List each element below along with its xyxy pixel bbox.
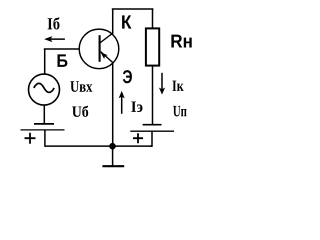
- wire: collector vertical from transistor to top rail: [112, 9, 114, 34]
- label Э (emitter node): [123, 70, 132, 83]
- label Iк: [172, 81, 183, 91]
- arrow Iэ shaft: [121, 97, 123, 114]
- arrow Iэ head: [119, 91, 125, 98]
- label Iб: [48, 17, 60, 29]
- AC source G1 sine wave: [34, 83, 54, 92]
- wire: top rail horizontal: [112, 8, 154, 10]
- plus sign of battery Uп: [133, 133, 143, 143]
- wire: AC source bottom lead: [43, 105, 45, 124]
- battery Uб short (negative) plate: [34, 123, 54, 125]
- arrow Iб head: [44, 36, 52, 42]
- transistor VT1 emitter diagonal: [101, 52, 113, 63]
- label Uп: [173, 106, 187, 117]
- ground bar: [102, 165, 124, 167]
- label Iэ: [131, 102, 142, 113]
- battery Uп long (positive) plate: [130, 130, 174, 132]
- AC source G1 circle: [29, 74, 60, 105]
- wire: resistor bottom lead to battery Uп: [152, 66, 154, 125]
- transistor VT1 emitter arrowhead (PNP, points to base): [101, 52, 108, 59]
- label Uвх: [70, 81, 92, 92]
- junction node (emitter / bottom rail / ground): [109, 143, 116, 150]
- transistor VT1 collector diagonal: [100, 33, 113, 43]
- wire: bottom rail horizontal: [45, 145, 152, 147]
- transistor VT1 circle: [79, 29, 119, 69]
- battery Uб long (positive) plate: [21, 129, 65, 131]
- arrow Iк shaft: [161, 73, 163, 90]
- label Uб: [72, 106, 88, 117]
- battery Uп short (negative) plate: [143, 124, 162, 126]
- wire: ground stem: [112, 146, 114, 166]
- label Rн: [171, 35, 191, 48]
- wire: emitter vertical to bottom junction: [112, 63, 114, 147]
- label К (collector node): [122, 15, 131, 28]
- label Б (base node): [58, 54, 68, 67]
- wire: battery Uп drop to bottom rail: [150, 131, 152, 146]
- wire: base wire horizontal to transistor: [44, 48, 80, 50]
- wire: AC source top lead: [44, 49, 46, 74]
- resistor Rн body: [146, 28, 159, 65]
- arrow Iк head: [159, 88, 165, 95]
- transistor VT1 base bar: [99, 35, 101, 62]
- wire: resistor top lead: [152, 9, 154, 28]
- arrow Iб shaft: [49, 38, 65, 40]
- wire: left battery drop to bottom rail: [44, 130, 46, 147]
- plus sign of battery Uб: [25, 133, 36, 144]
